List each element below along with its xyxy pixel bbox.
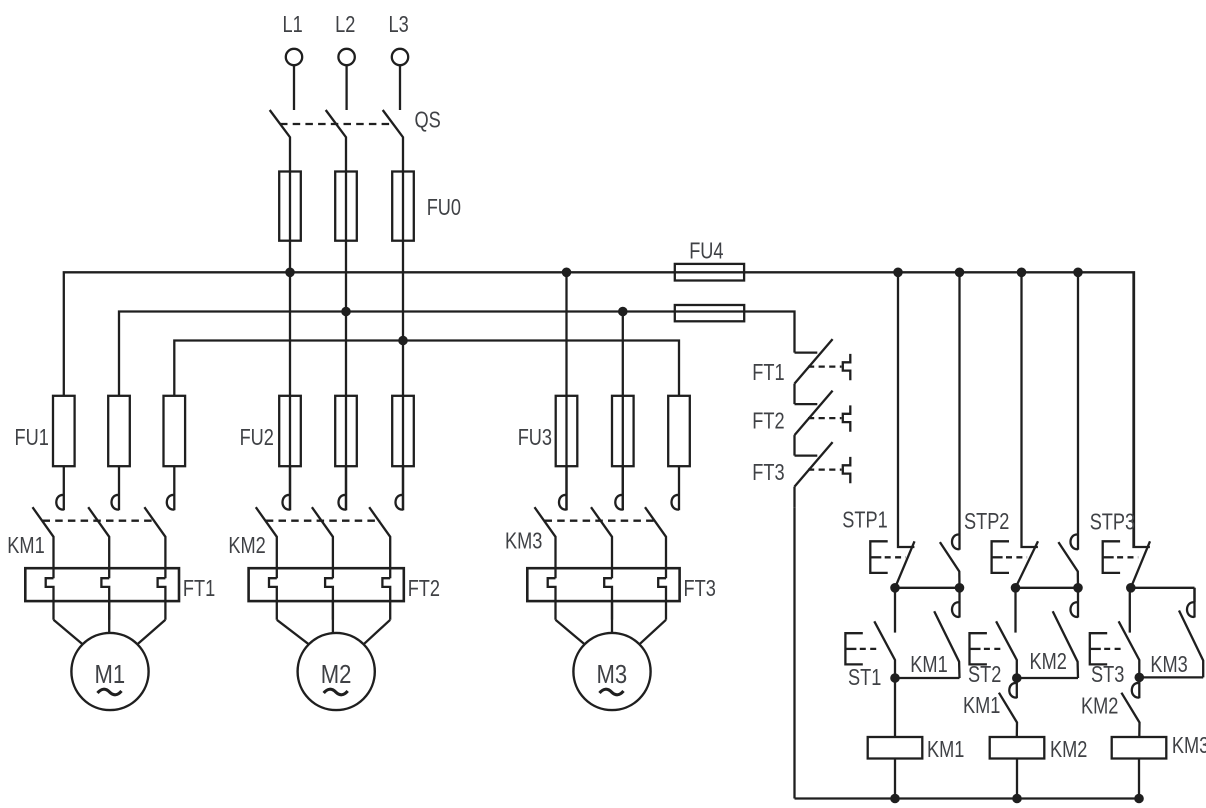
svg-text:FT2: FT2 xyxy=(752,408,784,434)
thermal relay FT2 heater element 1 xyxy=(269,578,277,620)
switch QS pole 2 blade xyxy=(326,110,346,172)
svg-text:QS: QS xyxy=(415,107,441,133)
fuse FU3 element 3 xyxy=(668,396,690,466)
svg-text:STP1: STP1 xyxy=(842,507,887,533)
wire M3 column 1 vertical xyxy=(565,272,567,510)
svg-text:STP2: STP2 xyxy=(964,508,1009,534)
coil KM1 xyxy=(868,737,923,759)
wire mid node row branch 3 xyxy=(1131,587,1195,589)
thermal relay FT3 heater box xyxy=(527,568,679,601)
wire motor M2 lead 2 xyxy=(332,601,334,633)
fuse FU1 element 1 xyxy=(53,396,75,466)
motor M3 xyxy=(573,633,650,710)
junction dot bus1/phase A xyxy=(286,268,295,277)
junction dot branch3 mid xyxy=(1127,584,1136,593)
thermal contact FT3 (NC) xyxy=(795,442,851,507)
svg-text:KM1: KM1 xyxy=(910,651,947,677)
svg-text:FT3: FT3 xyxy=(684,575,716,601)
svg-text:KM1: KM1 xyxy=(963,692,1000,718)
thermal relay FT1 heater element 1 xyxy=(46,578,54,620)
contactor KM1 pole 3 xyxy=(144,466,174,578)
contactor KM1 pole 1 xyxy=(33,466,64,578)
thermal relay FT2 heater element 3 xyxy=(382,578,390,620)
svg-text:M3: M3 xyxy=(597,659,628,689)
fuse FU3 element 2 xyxy=(612,396,634,466)
contact KM (seal-in upper) branch 1 xyxy=(940,272,960,588)
junction dot bottom bus branch3 xyxy=(1135,794,1144,803)
wire motor M1 lead 3 xyxy=(137,620,165,645)
svg-text:KM2: KM2 xyxy=(1081,692,1118,718)
motor M1 xyxy=(71,633,148,710)
contact KM2 (interlock) branch 3 xyxy=(1121,678,1139,737)
contactor KM2 pole 3 xyxy=(369,466,403,578)
contactor KM2 pole 2 xyxy=(312,466,346,578)
svg-text:L1: L1 xyxy=(283,11,303,37)
svg-text:FU3: FU3 xyxy=(518,424,552,450)
wire phase 1 vertical (fuse FU0 to KM2) xyxy=(289,172,291,511)
junction dot bus2/M3 column xyxy=(619,307,628,316)
junction dot branch1 mid right xyxy=(955,584,964,593)
coil KM3 xyxy=(1112,737,1167,759)
junction dot bus3/phase C xyxy=(399,336,408,345)
contact KM1 (interlock) branch 2 xyxy=(999,678,1017,737)
junction dot top bus / branch1 seal-in leg xyxy=(955,268,964,277)
junction dot branch3 lower xyxy=(1135,673,1144,682)
svg-text:KM2: KM2 xyxy=(1030,648,1067,674)
fuse FU0 element 1 xyxy=(279,172,301,241)
contactor KM3 linkage (dashed) xyxy=(545,520,657,522)
wire branch2 coil to bottom bus xyxy=(1016,759,1018,799)
contactor KM1 pole 2 xyxy=(88,466,119,578)
contact KM3 (seal-in) branch 3 xyxy=(1139,588,1203,678)
contact KM1 (seal-in) branch 1 xyxy=(895,588,960,678)
svg-text:KM2: KM2 xyxy=(228,532,265,558)
wire mid node row branch 2 xyxy=(1016,587,1079,589)
wire left control rail (FT3 to bottom bus) xyxy=(793,507,795,798)
fuse FU0 element 2 xyxy=(335,172,357,241)
fuse FU4 lower xyxy=(675,305,744,321)
fuse FU4 upper xyxy=(675,264,744,281)
contact KM (seal-in upper) branch 2 xyxy=(1058,272,1078,588)
junction dot branch1 mid left xyxy=(891,584,900,593)
wire motor M1 lead 2 xyxy=(108,601,110,633)
thermal relay FT3 heater element 3 xyxy=(658,578,666,620)
terminal L3 xyxy=(392,49,408,110)
svg-text:FT3: FT3 xyxy=(752,459,784,485)
junction dot bus2/phase B xyxy=(342,307,351,316)
svg-text:KM2: KM2 xyxy=(1050,736,1087,762)
fuse FU0 element 3 xyxy=(392,172,414,241)
pushbutton ST2 (start, NO) xyxy=(970,588,1017,678)
switch QS linkage (dashed) xyxy=(280,123,394,125)
junction dot branch2 lower xyxy=(1013,674,1022,683)
fuse FU1 element 3 xyxy=(164,396,186,466)
svg-text:L2: L2 xyxy=(335,11,355,37)
junction dot bottom bus branch1 xyxy=(891,794,900,803)
switch QS pole 1 blade xyxy=(270,110,290,172)
svg-text:FU1: FU1 xyxy=(15,424,49,450)
thermal relay FT1 heater element 2 xyxy=(101,578,109,620)
wire motor M2 lead 1 xyxy=(277,620,309,645)
junction dot branch2 mid right xyxy=(1074,584,1083,593)
wire M3 column 2 vertical xyxy=(622,312,624,511)
thermal relay FT1 heater element 3 xyxy=(158,578,166,620)
contactor KM3 pole 2 xyxy=(591,466,623,578)
svg-text:ST1: ST1 xyxy=(848,664,881,690)
contactor KM2 linkage (dashed) xyxy=(266,520,380,522)
wire bus line 2 (horizontal) xyxy=(119,312,795,396)
wire motor M2 lead 3 xyxy=(364,620,391,645)
junction dot bus1/M3 column xyxy=(562,268,571,277)
svg-text:ST3: ST3 xyxy=(1091,661,1124,687)
thermal relay FT1 heater box xyxy=(25,568,179,601)
thermal relay FT2 heater element 2 xyxy=(325,578,333,620)
pushbutton STP2 (stop, NC) xyxy=(992,272,1038,588)
svg-text:FT1: FT1 xyxy=(752,359,784,385)
wire phase 2 vertical (fuse FU0 to KM2) xyxy=(345,172,347,511)
svg-text:FU2: FU2 xyxy=(240,424,274,450)
contactor KM3 pole 3 xyxy=(645,466,679,578)
wire motor M3 lead 2 xyxy=(611,601,613,633)
svg-text:FT2: FT2 xyxy=(408,575,440,601)
thermal contact FT1 (NC) xyxy=(795,339,851,404)
pushbutton ST3 (start, NO) xyxy=(1090,588,1140,678)
wire branch1 coil to bottom bus xyxy=(894,759,896,799)
svg-text:M1: M1 xyxy=(95,659,126,689)
contact KM2 (seal-in) branch 2 xyxy=(1017,588,1078,678)
wire motor M3 lead 3 xyxy=(639,620,666,645)
svg-text:KM3: KM3 xyxy=(1172,732,1206,758)
thermal relay FT3 heater element 1 xyxy=(548,578,556,620)
junction dot bottom bus branch2 xyxy=(1013,794,1022,803)
wire branch1 node to coil xyxy=(894,678,896,737)
fuse FU2 element 2 xyxy=(335,396,357,466)
contactor KM3 pole 1 xyxy=(535,466,567,578)
junction dot top bus / STP1 leg xyxy=(894,268,903,277)
wire bus line 1 (top horizontal) xyxy=(64,272,1134,547)
svg-text:L3: L3 xyxy=(389,11,409,37)
wire branch3 coil to bottom bus xyxy=(1138,759,1140,799)
svg-text:M2: M2 xyxy=(321,659,352,689)
svg-text:KM3: KM3 xyxy=(505,528,542,554)
svg-text:STP3: STP3 xyxy=(1090,509,1135,535)
fuse FU2 element 1 xyxy=(279,396,301,466)
svg-text:KM3: KM3 xyxy=(1150,651,1187,677)
terminal L1 xyxy=(286,49,302,110)
wire motor M3 lead 1 xyxy=(556,620,585,645)
wire bottom control bus xyxy=(795,797,1140,799)
svg-text:KM1: KM1 xyxy=(7,532,44,558)
pushbutton STP3 (stop, NC) xyxy=(1103,272,1150,588)
svg-text:FU0: FU0 xyxy=(427,194,461,220)
svg-text:KM1: KM1 xyxy=(927,736,964,762)
junction dot branch2 mid left xyxy=(1011,584,1020,593)
terminal L2 xyxy=(338,49,354,110)
thermal relay FT3 heater element 2 xyxy=(604,578,612,620)
switch QS pole 3 blade xyxy=(383,110,403,172)
svg-text:ST2: ST2 xyxy=(968,661,1001,687)
coil KM2 xyxy=(990,737,1045,759)
contactor KM2 pole 1 xyxy=(256,466,290,578)
fuse FU2 element 3 xyxy=(392,396,414,466)
junction dot branch1 lower xyxy=(891,674,900,683)
junction dot top bus / STP2 leg xyxy=(1017,268,1026,277)
fuse FU3 element 1 xyxy=(556,396,578,466)
thermal contact FT2 (NC) xyxy=(795,391,851,456)
pushbutton ST1 (start, NO) xyxy=(845,588,895,678)
motor M2 xyxy=(298,633,375,710)
svg-text:FT1: FT1 xyxy=(183,575,215,601)
wire mid node row branch 1 xyxy=(895,587,960,589)
pushbutton STP1 (stop, NC) xyxy=(870,272,914,588)
fuse FU1 element 2 xyxy=(108,396,130,466)
wire bus line 3 (horizontal) xyxy=(174,341,679,396)
svg-text:FU4: FU4 xyxy=(689,237,723,263)
wire motor M1 lead 1 xyxy=(54,620,83,645)
contactor KM1 linkage (dashed) xyxy=(43,520,156,522)
thermal relay FT2 heater box xyxy=(249,568,404,601)
junction dot top bus / branch2 seal-in leg xyxy=(1074,268,1083,277)
wire phase 3 vertical (fuse FU0 to KM2) xyxy=(402,172,404,511)
